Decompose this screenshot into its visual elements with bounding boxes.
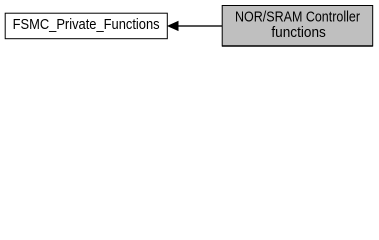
svg-text:FSMC_Private_Functions: FSMC_Private_Functions: [13, 17, 160, 33]
node FSMC_Private_Functions: [5, 13, 167, 39]
svg-text:functions: functions: [271, 25, 326, 41]
svg-text:NOR/SRAM Controller: NOR/SRAM Controller: [235, 10, 360, 26]
node NOR/SRAM Controller functions: [222, 6, 373, 47]
wire arrow shaft: [178, 25, 222, 26]
arrowhead: [168, 22, 178, 31]
